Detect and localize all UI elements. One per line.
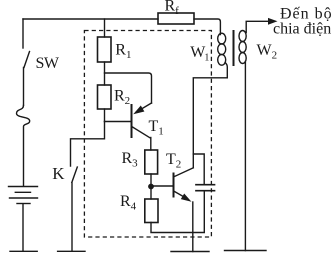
- svg-text:SW: SW: [36, 55, 60, 72]
- svg-text:chia điện: chia điện: [273, 21, 331, 38]
- svg-text:K: K: [52, 164, 65, 183]
